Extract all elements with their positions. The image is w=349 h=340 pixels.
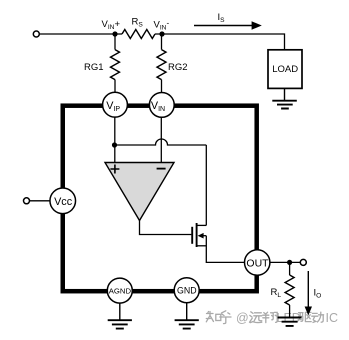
wire feedback with hop bbox=[115, 139, 207, 145]
pin AGND bbox=[107, 278, 132, 303]
svg-text:AGND: AGND bbox=[109, 286, 132, 295]
svg-text:GND: GND bbox=[177, 285, 197, 295]
wire top rail right bbox=[155, 34, 285, 50]
watermark bbox=[206, 311, 231, 324]
Vcc terminal bbox=[24, 198, 30, 204]
svg-text:@: @ bbox=[236, 311, 249, 325]
resistor RG1 bbox=[114, 34, 116, 50]
pin VIN bbox=[149, 93, 174, 118]
current arrow IS bbox=[194, 25, 253, 27]
svg-text:LOAD: LOAD bbox=[272, 64, 298, 75]
IC boundary bbox=[63, 106, 257, 292]
wire op-amp output to gate bbox=[140, 220, 192, 235]
wire VIP to op-amp bbox=[114, 117, 116, 162]
svg-text:RG2: RG2 bbox=[168, 62, 188, 73]
transistor Q1 bbox=[191, 227, 193, 244]
svg-text:OUT: OUT bbox=[246, 257, 269, 269]
wire top rail left bbox=[40, 33, 122, 35]
ground (RL) bbox=[278, 318, 302, 326]
ground (AGND) bbox=[119, 303, 121, 320]
pin VIP bbox=[103, 92, 128, 117]
pin Vcc bbox=[50, 188, 76, 214]
wire OUT to output terminal bbox=[270, 261, 300, 263]
svg-text:Vcc: Vcc bbox=[54, 196, 73, 208]
wire VIN to op-amp bbox=[160, 117, 162, 162]
node feedback junction bbox=[112, 142, 117, 147]
svg-text:IC: IC bbox=[326, 311, 339, 325]
pin GND bbox=[174, 278, 199, 303]
resistor RS bbox=[122, 30, 155, 39]
ground (load) bbox=[284, 88, 286, 100]
op-amp U1 bbox=[105, 163, 174, 221]
output terminal bbox=[300, 259, 306, 265]
load bbox=[268, 50, 302, 89]
node RL junction bbox=[287, 260, 292, 265]
wire source to OUT bbox=[206, 236, 244, 263]
resistor RL bbox=[289, 262, 291, 275]
resistor RG2 bbox=[161, 34, 163, 50]
input terminal bbox=[33, 31, 39, 37]
node VIN- bbox=[159, 31, 164, 36]
current arrow IO bbox=[307, 271, 309, 308]
node VIN+ bbox=[112, 31, 117, 36]
pin OUT bbox=[245, 250, 270, 275]
svg-text:RG1: RG1 bbox=[84, 62, 104, 73]
wire drain bbox=[205, 145, 207, 225]
ground (GND) bbox=[186, 303, 188, 321]
